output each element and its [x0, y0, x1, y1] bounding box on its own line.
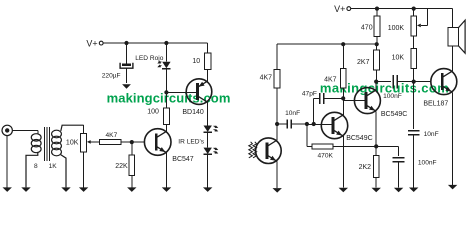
svg-text:1K: 1K [49, 163, 58, 170]
svg-text:4K7: 4K7 [106, 132, 118, 139]
svg-text:470: 470 [361, 24, 373, 31]
svg-text:4K7: 4K7 [324, 76, 337, 83]
svg-text:470K: 470K [318, 153, 334, 160]
svg-text:10K: 10K [392, 55, 405, 62]
svg-text:10nF: 10nF [424, 131, 439, 138]
svg-text:220µF: 220µF [102, 73, 121, 80]
svg-text:4K7: 4K7 [260, 75, 273, 82]
svg-text:100: 100 [147, 109, 159, 116]
svg-text:100nF: 100nF [418, 160, 437, 167]
svg-text:BC549C: BC549C [346, 135, 372, 142]
svg-text:22K: 22K [115, 163, 128, 170]
svg-text:10: 10 [192, 58, 200, 65]
svg-text:IR LED's: IR LED's [178, 138, 205, 145]
svg-text:2K2: 2K2 [359, 164, 372, 171]
svg-text:BEL187: BEL187 [423, 100, 448, 107]
svg-text:LED Rojo: LED Rojo [135, 55, 164, 62]
svg-text:V+: V+ [86, 38, 97, 48]
svg-text:47pF: 47pF [302, 90, 317, 97]
svg-text:10nF: 10nF [285, 110, 300, 117]
svg-text:100K: 100K [388, 25, 405, 32]
svg-text:BC549C: BC549C [381, 111, 407, 118]
svg-text:BD140: BD140 [182, 109, 204, 116]
svg-text:10K: 10K [66, 139, 79, 146]
svg-text:BC547: BC547 [172, 156, 194, 163]
svg-text:2K7: 2K7 [357, 59, 370, 66]
svg-text:100nF: 100nF [383, 93, 402, 100]
svg-text:V+: V+ [334, 4, 345, 14]
svg-text:8: 8 [34, 163, 38, 170]
